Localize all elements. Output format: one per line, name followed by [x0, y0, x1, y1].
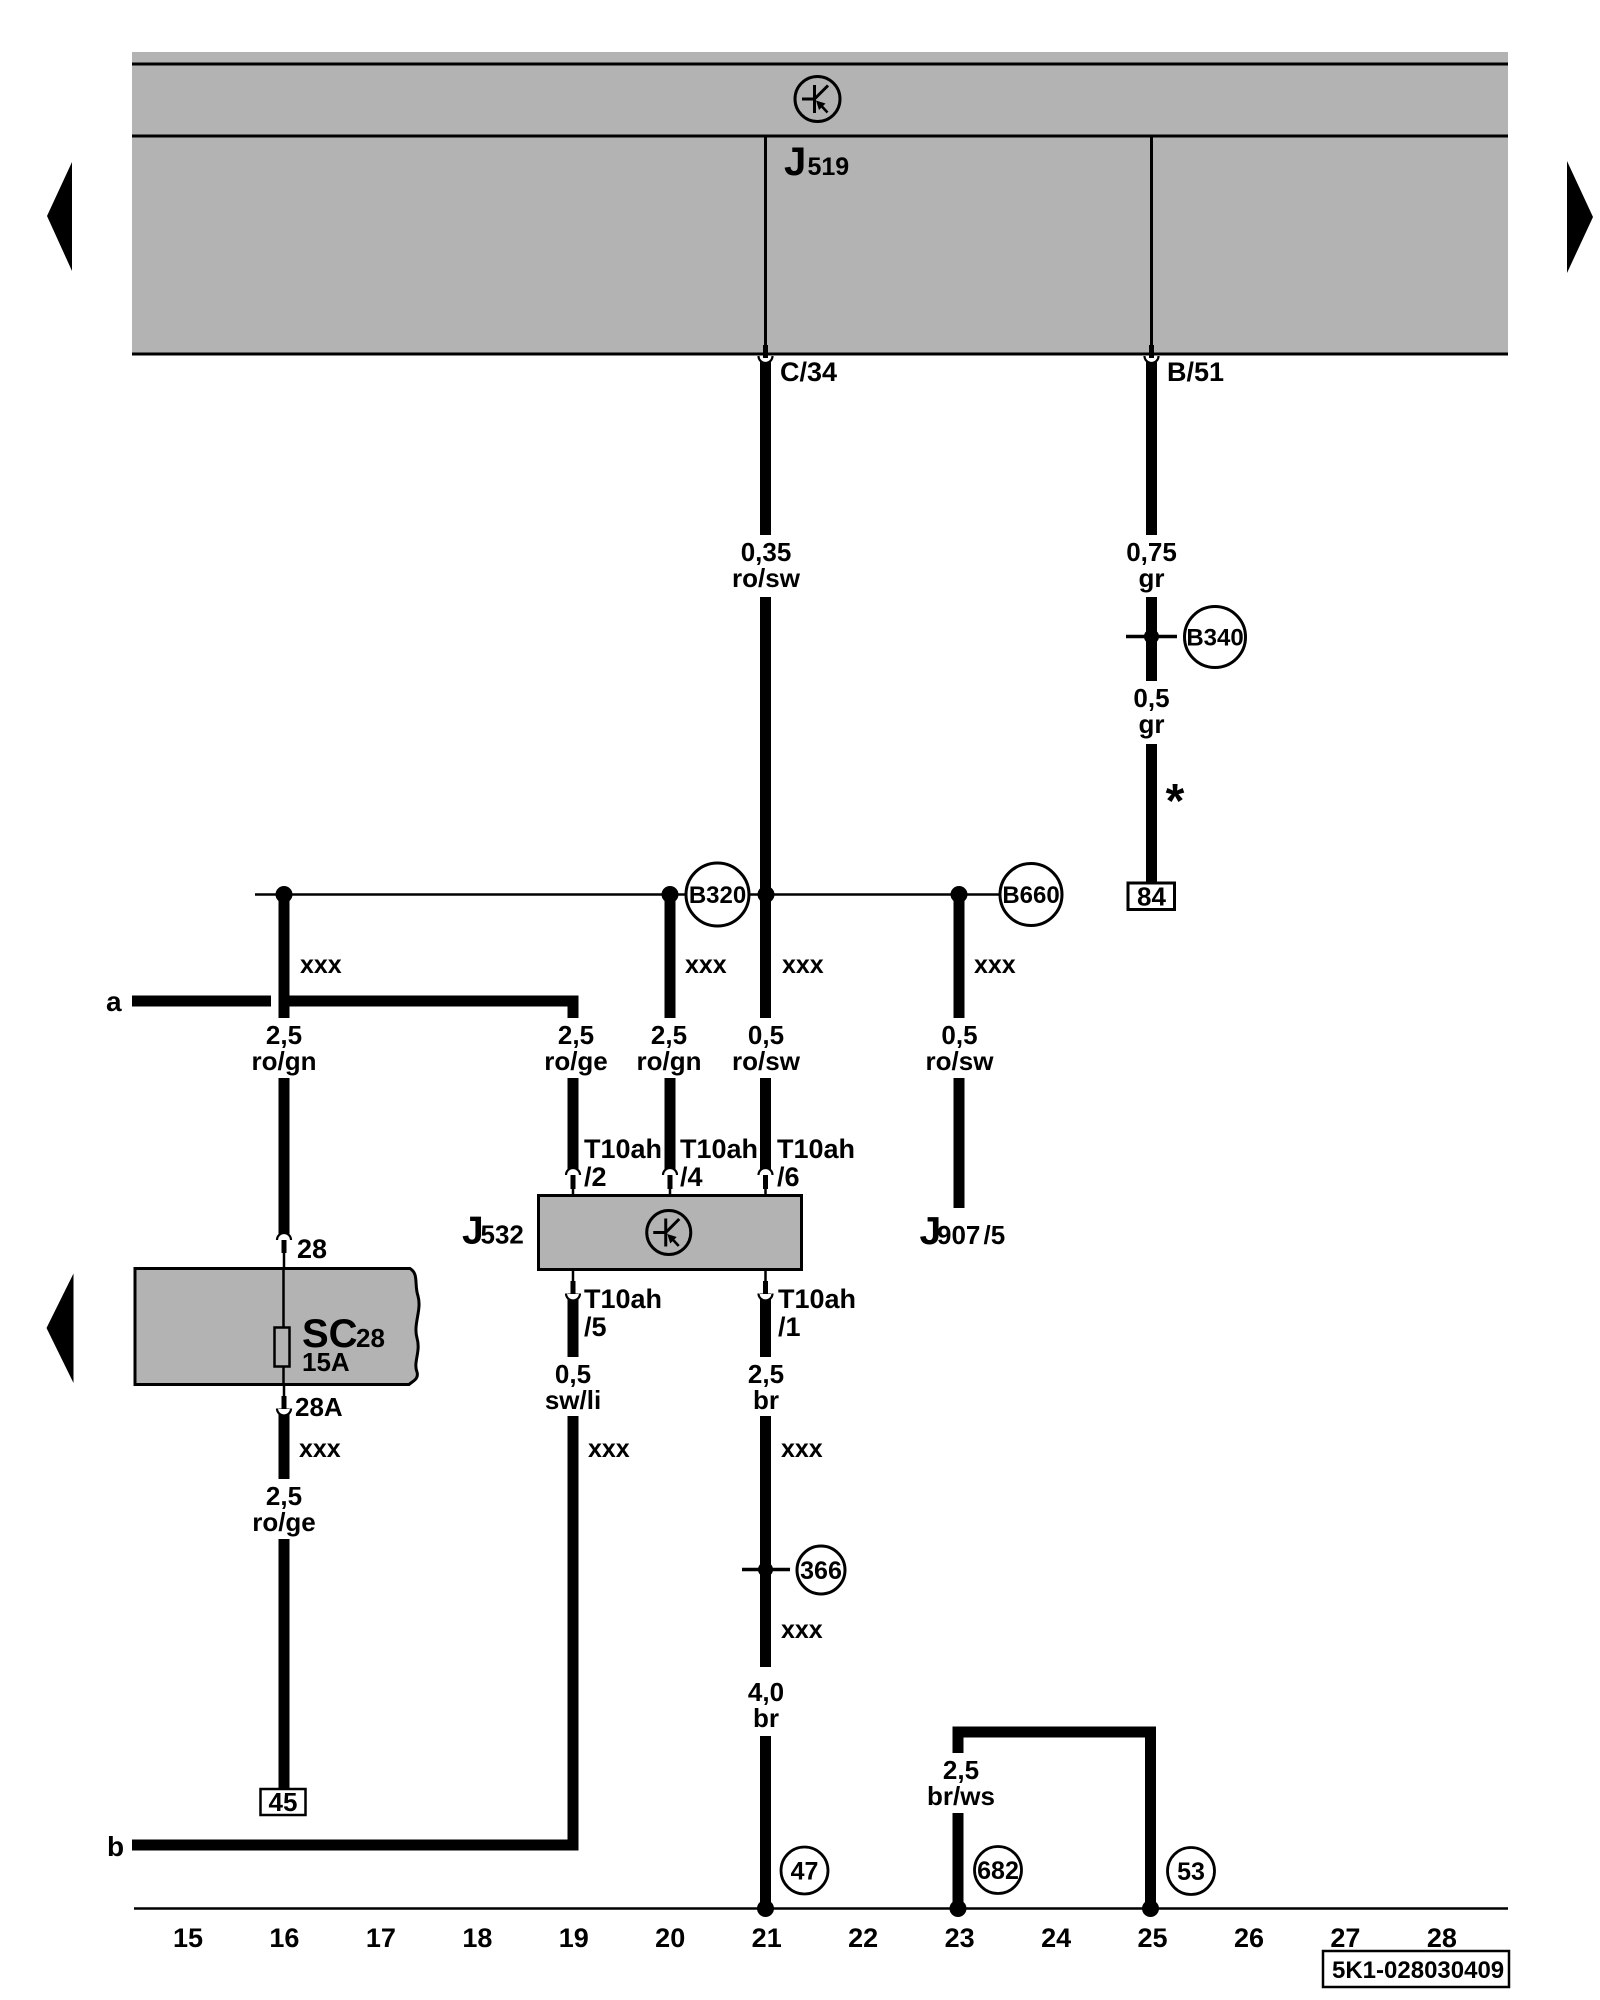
wire b (thick wire along bottom) — [132, 1840, 579, 1851]
svg-text:ro/sw: ro/sw — [732, 563, 801, 593]
svg-text:23: 23 — [945, 1923, 975, 1953]
control unit J519 (onboard supply control unit, gray band) — [132, 52, 1508, 354]
pin lead inside J519 to pin C/34 — [764, 137, 767, 346]
node wire linking splices B320/B660 — [255, 893, 686, 896]
connector circle B320 — [686, 863, 749, 926]
wire 2,5 br/ws bridge between grounds 682 and 53 — [953, 1727, 1157, 1738]
svg-text:br: br — [753, 1385, 779, 1415]
svg-text:/1: /1 — [778, 1312, 801, 1342]
svg-text:B320: B320 — [689, 882, 746, 909]
wire 2,5 br (track 21) from J532 down — [760, 1416, 771, 1667]
actuator symbol in J532 — [647, 1211, 691, 1255]
svg-text:B/51: B/51 — [1167, 357, 1224, 387]
svg-text:xxx: xxx — [588, 1435, 630, 1463]
svg-text:xxx: xxx — [781, 1616, 823, 1644]
svg-text:53: 53 — [1177, 1858, 1205, 1886]
svg-text:xxx: xxx — [300, 951, 342, 979]
pin lead inside J519 to pin B/51 — [1150, 137, 1153, 346]
splice B340 — [1126, 635, 1177, 639]
svg-text:28: 28 — [356, 1323, 385, 1353]
wire 4,0 br (track 21) to ground point — [760, 1736, 771, 1908]
svg-text:27: 27 — [1330, 1923, 1360, 1953]
svg-text:28: 28 — [297, 1234, 327, 1264]
wire 2,5 ro/ge (track 16) down to terminal 45 — [279, 1539, 290, 1789]
svg-text:xxx: xxx — [685, 951, 727, 979]
svg-text:24: 24 — [1041, 1923, 1071, 1953]
svg-text:22: 22 — [848, 1923, 878, 1953]
fuse element symbol SC28 — [275, 1328, 290, 1367]
connector T10ah/2 — [566, 1168, 580, 1175]
ground junction dot 47 — [757, 1900, 774, 1917]
svg-text:b: b — [107, 1831, 124, 1862]
svg-text:15: 15 — [173, 1923, 203, 1953]
svg-text:20: 20 — [655, 1923, 685, 1953]
connector T10ah/4 — [663, 1168, 677, 1175]
svg-text:19: 19 — [559, 1923, 589, 1953]
svg-text:47: 47 — [791, 1858, 819, 1886]
svg-text:519: 519 — [808, 153, 850, 181]
wire 0,35 ro/sw from pin C/34 down to splice B320 line — [760, 357, 771, 535]
svg-text:/6: /6 — [777, 1162, 800, 1192]
svg-text:J: J — [784, 140, 806, 184]
page arrow right — [1567, 161, 1593, 273]
ground junction dot 53 — [1142, 1900, 1159, 1917]
page arrow left middle — [47, 1274, 74, 1384]
svg-text:a: a — [106, 986, 122, 1017]
wire a (thick feed wire) — [132, 996, 271, 1007]
svg-text:xxx: xxx — [782, 951, 824, 979]
current track baseline — [134, 1907, 1508, 1910]
svg-text:B660: B660 — [1002, 882, 1059, 909]
ground circle 47 — [781, 1847, 828, 1894]
svg-text:sw/li: sw/li — [545, 1385, 601, 1415]
svg-text:28A: 28A — [295, 1392, 343, 1422]
svg-text:/5: /5 — [584, 1312, 607, 1342]
svg-text:xxx: xxx — [781, 1435, 823, 1463]
connector T10ah/6 — [759, 1168, 773, 1175]
svg-text:T10ah: T10ah — [778, 1284, 856, 1314]
svg-text:15A: 15A — [302, 1347, 350, 1377]
svg-text:ro/ge: ro/ge — [544, 1046, 608, 1076]
svg-text:ro/sw: ro/sw — [732, 1046, 801, 1076]
svg-text:532: 532 — [481, 1220, 524, 1250]
ground circle 682 — [975, 1847, 1022, 1894]
svg-text:br/ws: br/ws — [927, 1781, 995, 1811]
svg-text:br: br — [753, 1703, 779, 1733]
svg-text:16: 16 — [269, 1923, 299, 1953]
lead line through fuse box — [282, 1268, 285, 1384]
connector pin C/34 — [759, 356, 773, 363]
junction dot track20 — [662, 886, 679, 903]
connector pin 28A below fuse — [283, 1385, 286, 1397]
svg-text:*: * — [1166, 775, 1185, 828]
junction dot track23 — [951, 886, 968, 903]
wire 0,5 ro/sw (track 23) stub to relay J907 — [954, 895, 965, 1019]
svg-text:T10ah: T10ah — [680, 1134, 758, 1164]
actuator symbol in J519 — [795, 77, 840, 122]
svg-text:ro/gn: ro/gn — [637, 1046, 702, 1076]
svg-text:B340: B340 — [1186, 625, 1243, 652]
svg-text:gr: gr — [1139, 563, 1165, 593]
splice 366 — [742, 1568, 790, 1572]
ground circle 53 — [1168, 1848, 1215, 1895]
wire 2,5 ro/gn (track 20) from node down to J532 pin T10ah/4 — [665, 895, 676, 1019]
svg-text:5K1-028030409: 5K1-028030409 — [1332, 1957, 1504, 1984]
svg-text:366: 366 — [800, 1557, 842, 1585]
junction dot track16 — [276, 886, 293, 903]
wire 0,5 sw/li (track 19) from J532 down to wire b — [568, 1416, 579, 1851]
svg-text:28: 28 — [1427, 1923, 1457, 1953]
wire 2,5 ro/gn (track 16) from B320 node down to fuse SC28 — [279, 895, 290, 1019]
svg-text:ro/ge: ro/ge — [252, 1507, 316, 1537]
control unit J532 (voltage stabiliser box) — [539, 1196, 802, 1270]
connector T10ah/5 — [572, 1270, 575, 1283]
wire 0,5 ro/sw (track 21) into J532 pin T10ah/6 — [760, 1078, 771, 1175]
diagram number box 5K1-028030409 — [1323, 1951, 1509, 1987]
svg-text:26: 26 — [1234, 1923, 1264, 1953]
terminal box 45 — [261, 1789, 306, 1815]
svg-text:25: 25 — [1137, 1923, 1167, 1953]
connector pin B/51 — [1145, 356, 1159, 363]
wire 2,5 ro/ge (track 19) from wire a down to J532 pin T10ah/2 — [568, 996, 579, 1019]
svg-text:21: 21 — [752, 1923, 782, 1953]
ground junction dot 682 — [950, 1900, 967, 1917]
wire 0,75 gr from pin B/51 — [1146, 357, 1157, 535]
connector T10ah/1 — [764, 1270, 767, 1283]
svg-text:gr: gr — [1139, 709, 1165, 739]
svg-text:17: 17 — [366, 1923, 396, 1953]
svg-text:/2: /2 — [584, 1162, 607, 1192]
fuse SC28 holder (gray box, torn right edge) — [135, 1269, 419, 1385]
svg-text:T10ah: T10ah — [584, 1134, 662, 1164]
svg-text:T10ah: T10ah — [584, 1284, 662, 1314]
svg-text:ro/gn: ro/gn — [252, 1046, 317, 1076]
svg-text:T10ah: T10ah — [777, 1134, 855, 1164]
svg-text:45: 45 — [269, 1787, 298, 1817]
svg-text:682: 682 — [977, 1857, 1019, 1885]
junction dot track21 — [758, 886, 775, 903]
terminal box 84 — [1128, 883, 1175, 910]
svg-text:xxx: xxx — [974, 951, 1016, 979]
svg-text:18: 18 — [462, 1923, 492, 1953]
wire 0,5 gr below splice B340 — [1146, 744, 1157, 883]
connector pin 28 at fuse box — [277, 1233, 291, 1240]
svg-text:907: 907 — [937, 1220, 980, 1250]
svg-text:/4: /4 — [680, 1162, 703, 1192]
page arrow left top — [47, 162, 72, 271]
connector circle B660 — [1000, 864, 1062, 926]
svg-text:xxx: xxx — [299, 1435, 341, 1463]
svg-text:C/34: C/34 — [780, 357, 837, 387]
svg-text:/5: /5 — [984, 1220, 1006, 1250]
svg-text:84: 84 — [1137, 882, 1166, 912]
svg-text:ro/sw: ro/sw — [926, 1046, 995, 1076]
